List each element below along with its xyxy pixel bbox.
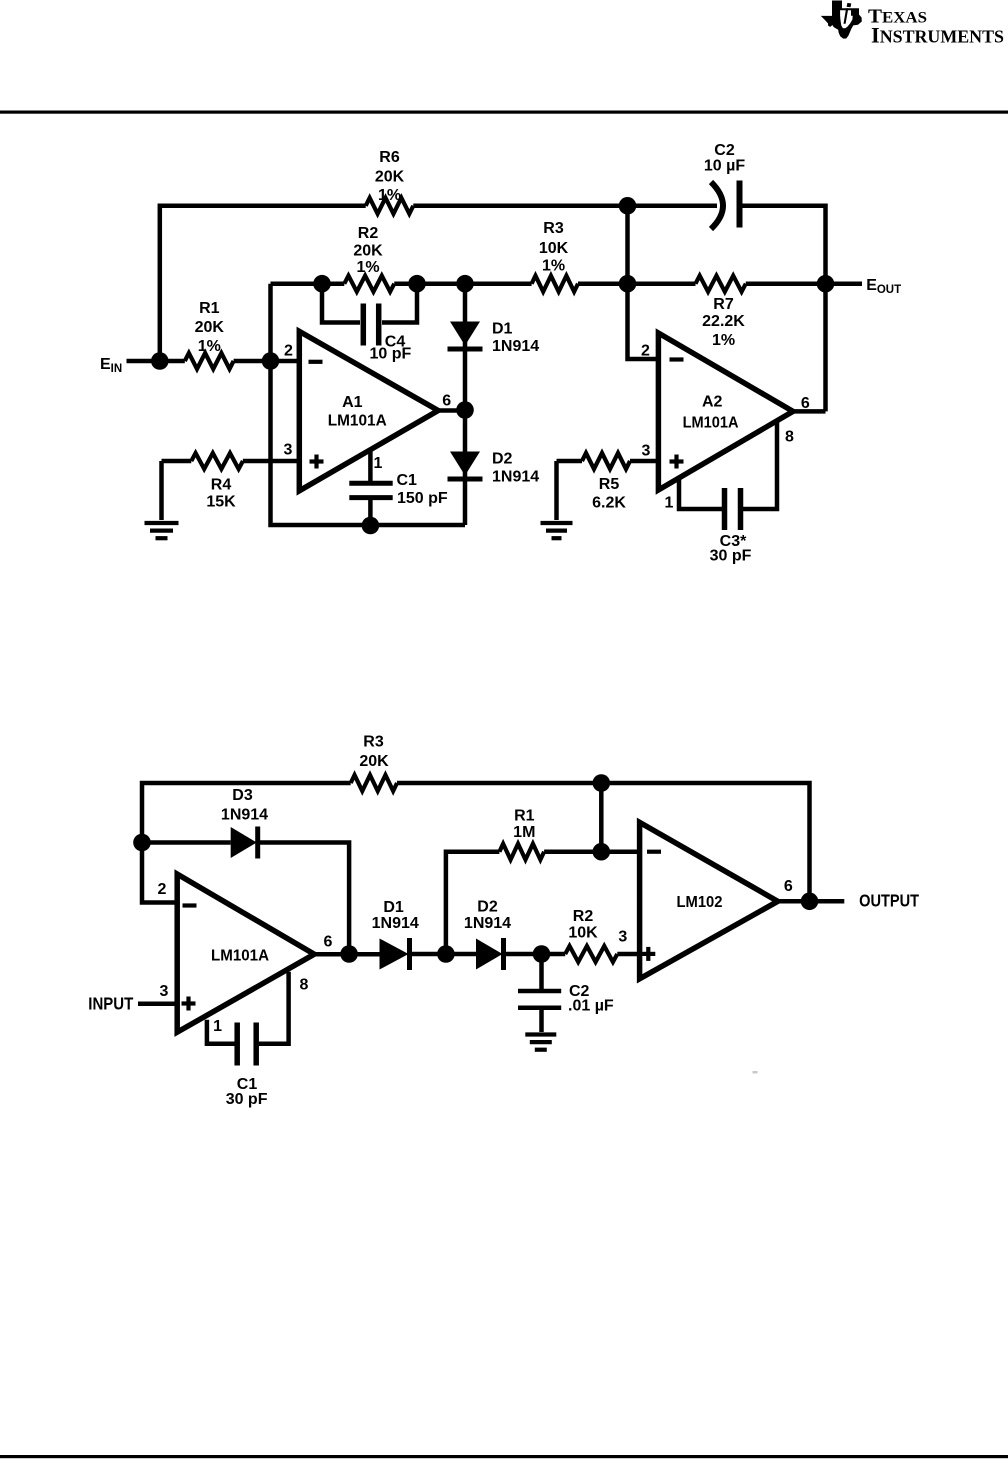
svg-text:1M: 1M <box>513 824 535 841</box>
svg-text:1N914: 1N914 <box>221 807 268 824</box>
wire A1 ckt2 output row <box>314 952 379 957</box>
junction D3 left node <box>133 834 151 852</box>
wire C1 top lead <box>368 448 373 483</box>
svg-text:1%: 1% <box>378 187 401 204</box>
wire C2 junction down to EOUT row <box>625 206 630 284</box>
wire inverting node vertical and bottom rail <box>271 284 466 525</box>
svg-text:10K: 10K <box>568 925 598 942</box>
svg-text:1N914: 1N914 <box>464 915 511 932</box>
op-amp LM102 <box>640 822 778 978</box>
capacitor C3 right plate <box>738 488 744 530</box>
svg-text:R2: R2 <box>358 225 379 242</box>
svg-text:1%: 1% <box>198 338 221 355</box>
wire junction to C2 <box>628 204 718 209</box>
resistor R2 ckt2 <box>565 946 617 962</box>
resistor R5 <box>582 453 630 469</box>
svg-text:INSTRUMENTS: INSTRUMENTS <box>871 23 1004 48</box>
resistor R3 <box>532 276 578 292</box>
wire A1 ckt2 pin1 lead <box>207 1020 235 1044</box>
svg-text:6: 6 <box>784 878 793 895</box>
junction C4 right <box>408 275 426 293</box>
svg-text:1: 1 <box>665 495 674 512</box>
wire D2 to R2 <box>506 952 566 957</box>
capacitor C2 curved plate <box>711 182 723 229</box>
wire INPUT lead <box>138 1001 177 1006</box>
svg-text:R3: R3 <box>543 220 564 237</box>
wire A1 output to node <box>438 408 465 413</box>
ground R4 <box>145 523 179 538</box>
capacitor C1 bottom plate <box>349 495 392 500</box>
resistor R7 <box>696 276 746 292</box>
resistor R6 <box>366 198 414 214</box>
wire C4 left lead <box>322 284 360 323</box>
svg-text:20K: 20K <box>359 753 389 770</box>
svg-text:1: 1 <box>374 455 383 472</box>
svg-text:20K: 20K <box>195 319 225 336</box>
svg-text:6.2K: 6.2K <box>592 495 626 512</box>
junction D2 C2 R2 node <box>533 945 551 963</box>
bottom horizontal rule <box>0 1455 1008 1458</box>
junction D1 top node <box>456 275 474 293</box>
diode D3 <box>231 827 258 859</box>
svg-text:R3: R3 <box>363 734 384 751</box>
wire C2 ckt2 bottom lead <box>539 1008 544 1032</box>
svg-text:R1: R1 <box>199 300 220 317</box>
svg-text:LM102: LM102 <box>677 894 723 911</box>
wire top rail R6 to C2 junction <box>413 204 627 209</box>
svg-text:.01 µF: .01 µF <box>568 998 614 1015</box>
wire LM102 output <box>778 899 845 904</box>
svg-text:INPUT: INPUT <box>88 994 133 1014</box>
junction C4 left <box>313 275 331 293</box>
wire D3 cathode to A1 output node <box>260 843 349 955</box>
svg-text:R6: R6 <box>379 149 400 166</box>
wire EIN to R1 junction <box>127 359 160 364</box>
junction D1 D2 node <box>437 945 455 963</box>
op-amp A2 <box>658 333 793 490</box>
svg-text:LM101A: LM101A <box>211 948 269 965</box>
svg-text:20K: 20K <box>353 243 383 260</box>
capacitor C1 ckt2 right plate <box>253 1023 259 1066</box>
diode D1 ckt2 <box>380 938 410 970</box>
ground R5 <box>541 523 573 538</box>
svg-text:1%: 1% <box>712 332 735 349</box>
svg-text:D2: D2 <box>477 899 498 916</box>
wire A2 pin1 lead <box>679 478 722 509</box>
wire R1 branch <box>446 852 500 954</box>
svg-text:A1: A1 <box>342 394 363 411</box>
capacitor C3 left plate <box>722 488 728 530</box>
svg-text:1%: 1% <box>356 259 379 276</box>
wire R2 to LM102 plus <box>617 952 639 957</box>
svg-text:1: 1 <box>213 1018 222 1035</box>
op-amp A1 minus input <box>309 360 323 364</box>
op-amp A2 plus input <box>670 455 684 469</box>
wire EOUT node down to A2 pin2 <box>628 284 659 359</box>
junction C1 bottom node <box>362 517 380 535</box>
junction A1 output node <box>456 401 474 419</box>
svg-text:1%: 1% <box>542 258 565 275</box>
svg-text:1N914: 1N914 <box>372 915 419 932</box>
svg-text:10K: 10K <box>539 240 569 257</box>
top horizontal rule <box>0 111 1008 114</box>
svg-text:OUTPUT: OUTPUT <box>859 891 919 911</box>
wire C4 right lead <box>382 284 417 323</box>
svg-text:2: 2 <box>158 881 167 898</box>
svg-text:A2: A2 <box>702 394 723 411</box>
op-amp A1 plus input <box>310 455 324 469</box>
wire left rail to top rail <box>142 783 351 903</box>
wire R5 to ground <box>554 461 559 520</box>
svg-text:C2: C2 <box>714 142 735 159</box>
svg-text:10 µF: 10 µF <box>704 158 745 175</box>
svg-text:3: 3 <box>618 929 627 946</box>
wire R4 to ground <box>159 461 164 520</box>
diode D1 <box>448 322 483 350</box>
junction EOUT node <box>817 275 835 293</box>
wire D3 anode lead <box>142 840 231 845</box>
wire R1 to LM102 minus <box>544 849 640 854</box>
svg-text:D3: D3 <box>232 787 253 804</box>
op-amp LM102 plus input <box>641 947 655 961</box>
svg-text:1N914: 1N914 <box>492 338 539 355</box>
junction R1 right node <box>593 843 611 861</box>
wire R7 to EOUT <box>746 281 862 286</box>
wire pin3 row R4 <box>162 459 300 464</box>
junction top rail R1 node <box>593 774 611 792</box>
scan artifact speck <box>753 1071 758 1074</box>
svg-text:1N914: 1N914 <box>492 469 539 486</box>
svg-text:C1: C1 <box>397 472 418 489</box>
resistor R4 <box>191 453 243 469</box>
op-amp A2 minus input <box>670 357 684 361</box>
svg-text:R5: R5 <box>599 476 620 493</box>
wire EIN node up to top rail <box>160 206 366 361</box>
wire R2 row <box>271 281 532 286</box>
diode D2 <box>448 452 483 480</box>
svg-text:R4: R4 <box>211 477 232 494</box>
svg-text:30 pF: 30 pF <box>226 1091 268 1108</box>
wire top junction down to R1 node <box>599 783 604 852</box>
resistor R2 <box>344 276 394 292</box>
wire R3 to R7 <box>578 281 696 286</box>
op-amp LM102 minus input <box>647 850 661 854</box>
capacitor C2 ckt2 bottom plate <box>518 1005 561 1010</box>
capacitor C4 right plate <box>376 304 382 346</box>
svg-text:3: 3 <box>284 442 293 459</box>
svg-text:22.2K: 22.2K <box>702 313 745 330</box>
svg-text:2: 2 <box>284 342 293 359</box>
wire R5 row <box>557 459 659 464</box>
wire top rail to output rail <box>397 783 810 901</box>
wire A2 pin8 lead <box>743 421 777 510</box>
svg-text:3: 3 <box>160 983 169 1000</box>
svg-text:R1: R1 <box>514 808 535 825</box>
wire D1 to D2 <box>412 952 476 957</box>
svg-text:LM101A: LM101A <box>328 413 387 430</box>
svg-text:10 pF: 10 pF <box>370 346 412 363</box>
wire D1 D2 branch vertical <box>463 284 468 525</box>
capacitor C1 top plate <box>349 481 392 486</box>
ground C2 ckt2 <box>525 1035 556 1050</box>
TI logo Texas map silhouette <box>821 1 862 39</box>
wire A2 output to right rail <box>793 409 826 414</box>
junction R3 R7 node <box>619 275 637 293</box>
capacitor C1 ckt2 left plate <box>234 1023 240 1066</box>
resistor R3 ckt2 <box>351 775 397 791</box>
op-amp A1 <box>299 331 438 490</box>
svg-text:8: 8 <box>300 977 309 994</box>
diode D2 ckt2 <box>476 938 504 970</box>
junction A1 inverting node <box>262 352 280 370</box>
op-amp A1 ckt2 LM101A <box>177 874 314 1032</box>
resistor R1 ckt2 <box>499 844 544 860</box>
wire C2 ckt2 top lead <box>539 954 544 989</box>
op-amp A1 ckt2 plus input <box>182 997 196 1011</box>
wire C1 bottom lead <box>368 498 373 526</box>
op-amp A1 ckt2 minus input <box>183 903 197 907</box>
svg-text:R7: R7 <box>713 296 734 313</box>
svg-text:30 pF: 30 pF <box>710 548 752 565</box>
junction A1 ckt2 output node <box>340 945 358 963</box>
junction EIN node <box>151 352 169 370</box>
capacitor C2 straight plate <box>737 181 743 228</box>
svg-text:6: 6 <box>324 934 333 951</box>
resistor R1 <box>185 353 234 369</box>
wire R1 leads <box>160 359 299 364</box>
wire C2 to right rail down to A2 output <box>740 206 826 412</box>
svg-text:150 pF: 150 pF <box>397 490 448 507</box>
svg-text:6: 6 <box>442 393 451 410</box>
svg-text:D1: D1 <box>383 899 404 916</box>
svg-text:D1: D1 <box>492 321 513 338</box>
svg-text:LM101A: LM101A <box>683 415 739 432</box>
svg-text:8: 8 <box>785 429 794 446</box>
svg-text:2: 2 <box>641 342 650 359</box>
wire A1 ckt2 pin8 lead <box>259 972 289 1044</box>
capacitor C2 ckt2 top plate <box>518 989 561 994</box>
svg-text:15K: 15K <box>206 494 236 511</box>
svg-text:D2: D2 <box>492 450 513 467</box>
svg-text:R2: R2 <box>573 908 594 925</box>
junction OUTPUT node <box>801 893 819 911</box>
capacitor C4 left plate <box>361 304 367 346</box>
svg-text:3: 3 <box>642 443 651 460</box>
svg-text:20K: 20K <box>375 169 405 186</box>
junction top rail node <box>619 197 637 215</box>
